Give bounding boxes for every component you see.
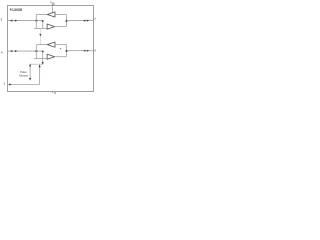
wire node A to buffer U1A output: [36, 14, 47, 16]
wire buffer U1A input to node B: [55, 14, 66, 16]
buffer U2A (left-pointing): [47, 42, 55, 47]
wire node A to buffer U1B input: [34, 28, 47, 30]
wire pin EN: [8, 84, 40, 86]
wire buffer U2A input to node D: [55, 44, 66, 46]
arrowhead on EN wire: [9, 83, 12, 85]
pin VCC (top tick): [51, 3, 53, 5]
junction dot on monitor tap: [42, 51, 44, 53]
svg-text:PCA9515B: PCA9515B: [10, 8, 23, 12]
arrowhead on EN riser (up): [39, 65, 41, 68]
wire pin SCL0 to node A: [8, 20, 43, 22]
wire node C to buffer U2B input: [34, 58, 47, 60]
buffer U1A (left-pointing): [47, 12, 55, 17]
node B junction dot: [66, 20, 68, 22]
node A vertical bus: [35, 15, 37, 29]
arrowheads on SDA0 wire: [10, 50, 13, 52]
node A junction dot: [35, 20, 37, 22]
wire monitor tap from node A (down): [42, 21, 44, 29]
wire buffer U2B output to node D: [55, 56, 67, 58]
pin GND (bottom tick): [51, 92, 53, 93]
node C vertical bus: [35, 45, 37, 59]
wire node C to pulse monitor (down arrow): [42, 51, 44, 63]
arrowhead on monitor line: [39, 34, 41, 37]
node D faint mark: [60, 48, 61, 49]
junction corner dot on monitor tap: [42, 20, 44, 22]
buffer U2B (right-pointing): [47, 54, 55, 59]
wire node C to buffer U2A output: [36, 44, 47, 46]
monitor arrow line (vertical double-headed): [29, 65, 31, 80]
arrowheads on SCL1 wire: [83, 20, 85, 22]
wire node D to pin SDA1: [66, 50, 93, 52]
node C junction dot: [35, 50, 37, 52]
arrowheads on SDA1 wire: [83, 50, 85, 52]
wire VCC to buffer U1A: [51, 6, 53, 14]
wire buffer U1B output to node B: [55, 26, 67, 28]
node D vertical bus: [65, 45, 67, 57]
buffer U1B (right-pointing): [47, 24, 55, 29]
arrowheads on SCL0 wire: [10, 20, 13, 22]
svg-text:Monitor: Monitor: [19, 73, 28, 77]
wire pin SDA0 to node C: [8, 50, 43, 52]
wire node B to pin SCL1: [66, 20, 93, 22]
node B vertical bus: [65, 15, 67, 27]
wire pulse monitor link: [30, 63, 43, 65]
node D junction dot: [66, 50, 68, 52]
wire faint monitor line (between channels): [39, 29, 41, 45]
IC boundary box: [8, 6, 94, 92]
wire EN riser to monitor node: [39, 65, 41, 85]
svg-text:Pulse: Pulse: [20, 70, 27, 74]
